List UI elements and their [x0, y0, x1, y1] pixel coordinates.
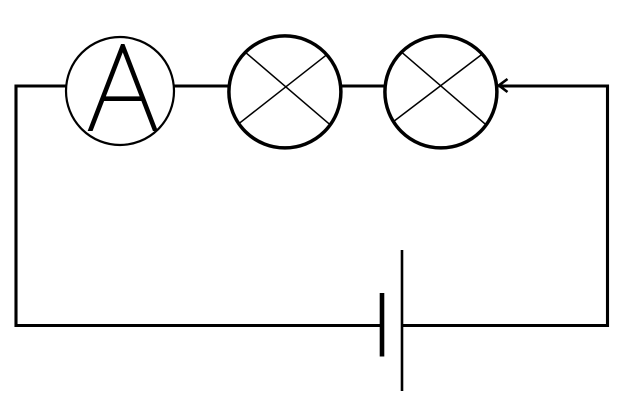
lamp L2 cross line SW-NE [393, 54, 482, 122]
ammeter A1 letter A [88, 44, 158, 131]
lamp L1 cross line NW-SE [245, 52, 330, 125]
wire right vertical [606, 85, 609, 328]
lamp L1 circle [229, 36, 341, 148]
wire bottom segment: battery to right corner [403, 324, 609, 327]
wire bottom segment: left corner to battery [15, 324, 381, 327]
lamp L1 cross line SW-NE [239, 55, 327, 124]
wire top segment: ammeter to lamp L1 [174, 84, 229, 87]
lamp L2 cross line NW-SE [402, 52, 487, 125]
lamp L2 circle [385, 36, 497, 148]
battery B1 negative plate (short thick) [380, 293, 385, 357]
wire top segment: left corner to ammeter [15, 84, 67, 87]
wire top segment: lamp L1 to lamp L2 [341, 84, 385, 87]
battery B1 positive plate (long thin) [401, 250, 404, 391]
wire top segment: lamp L2 to right corner [499, 84, 609, 87]
ammeter A1 circle [66, 37, 174, 145]
current direction arrowhead [499, 79, 508, 92]
wire left vertical [14, 85, 17, 328]
